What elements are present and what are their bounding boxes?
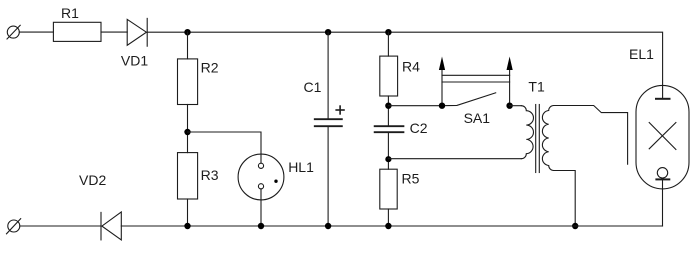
svg-text:VD2: VD2: [79, 172, 106, 188]
node bottom rail / C1: [325, 223, 331, 229]
wire terminal to VD2: [20, 225, 101, 227]
diode VD2: [79, 172, 121, 240]
svg-text:HL1: HL1: [288, 159, 314, 175]
wire node A to HL1: [188, 132, 262, 163]
wire T1 secondary top to lamp electrode: [554, 106, 628, 165]
node left post: [439, 103, 445, 109]
wire EL1 bottom lead: [662, 179, 664, 226]
wire R3 to bottom rail: [187, 199, 189, 226]
node top rail / C1: [325, 29, 331, 35]
node top rail / R2: [184, 29, 190, 35]
node bottom rail / HL1: [258, 223, 264, 229]
wire R2 to node A: [187, 105, 189, 153]
capacitor C2: [375, 120, 428, 136]
right arrow head: [507, 57, 513, 71]
node A (R2/R3/HL1 junction): [184, 129, 190, 135]
svg-text:SA1: SA1: [464, 110, 491, 126]
lamp EL1: [629, 46, 689, 189]
transformer T1 secondary winding: [542, 106, 553, 171]
svg-text:R1: R1: [61, 5, 79, 21]
terminal X1 (top-left input): [7, 25, 20, 39]
terminal X2 (bottom-left output): [7, 219, 21, 234]
wire rail to R2: [187, 32, 189, 59]
resistor R4: [380, 56, 420, 96]
transformer T1 primary winding: [521, 79, 545, 159]
wire T1 secondary bottom to rail: [554, 171, 576, 227]
resistor R3: [178, 153, 219, 199]
svg-text:R3: R3: [201, 167, 219, 183]
svg-text:R2: R2: [201, 59, 219, 75]
node bottom rail / R5: [385, 223, 391, 229]
resistor R5: [380, 169, 420, 209]
wire SA1 to T1 primary: [510, 105, 522, 107]
svg-text:VD1: VD1: [121, 52, 148, 68]
blade: [442, 93, 496, 106]
bottom rail wire VD2 to EL1: [121, 225, 662, 227]
wire node B to SA1: [388, 105, 442, 107]
diode VD1: [121, 18, 148, 68]
wire R1 to VD1: [101, 31, 127, 33]
wire HL1 to bottom rail: [260, 189, 262, 226]
svg-text:C2: C2: [410, 120, 428, 136]
resistor R2: [178, 59, 219, 105]
node bottom rail / R3: [184, 223, 190, 229]
svg-text:C1: C1: [304, 79, 322, 95]
resistor R1: [53, 5, 101, 41]
svg-text:T1: T1: [528, 79, 545, 95]
left post: [441, 68, 443, 106]
node right post: [506, 103, 512, 109]
neon lamp HL1: [238, 154, 314, 200]
wire node C to T1 primary bottom: [388, 158, 521, 160]
capacitor C1: [304, 32, 342, 226]
svg-text:R5: R5: [402, 170, 420, 186]
transformer T1 core: [536, 105, 540, 173]
wire terminal to R1: [19, 31, 53, 33]
wire R4 to C2: [387, 96, 389, 126]
wire top rail VD1 to EL1: [147, 32, 662, 98]
node C (C2/R5/T1 primary): [385, 156, 391, 162]
wire C2 to node C: [387, 132, 389, 169]
wire rail to R4: [387, 32, 389, 56]
svg-text:EL1: EL1: [629, 46, 654, 62]
left arrow head: [439, 57, 445, 71]
node B (R4/C2/SA1): [385, 103, 391, 109]
polarity plus of C1: [336, 106, 344, 114]
right post: [509, 68, 511, 106]
node T1 secondary / bottom rail: [572, 223, 578, 229]
wire R5 to bottom rail: [387, 209, 389, 226]
svg-text:R4: R4: [402, 58, 420, 74]
switch SA1: [439, 57, 513, 126]
coupling double line: [442, 74, 510, 76]
node top rail / R4: [385, 29, 391, 35]
